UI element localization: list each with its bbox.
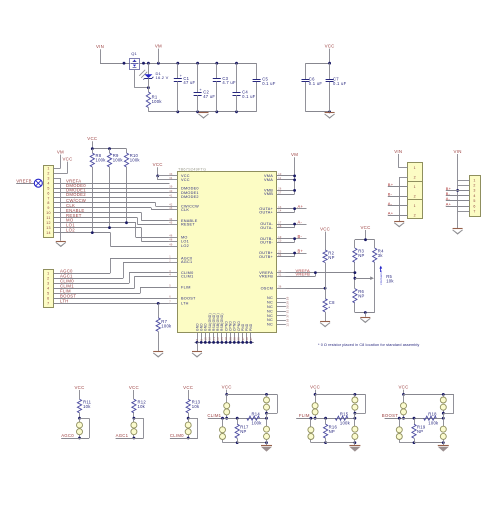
svg-text:3k: 3k — [378, 253, 384, 258]
svg-text:100k: 100k — [113, 157, 124, 162]
svg-text:VCC: VCC — [153, 162, 163, 167]
svg-text:100k: 100k — [252, 421, 263, 426]
svg-text:36: 36 — [278, 286, 282, 289]
svg-text:B+: B+ — [298, 248, 304, 253]
svg-text:13: 13 — [46, 226, 51, 230]
svg-text:2: 2 — [47, 172, 49, 176]
svg-text:NC: NC — [267, 318, 273, 322]
svg-text:A+: A+ — [298, 204, 304, 209]
svg-text:NP: NP — [417, 429, 423, 434]
svg-text:31: 31 — [278, 274, 282, 277]
svg-text:42: 42 — [169, 204, 173, 207]
svg-text:100k: 100k — [130, 157, 141, 162]
svg-text:5: 5 — [47, 186, 49, 190]
svg-text:OUTA-: OUTA- — [260, 226, 273, 230]
svg-text:37: 37 — [286, 314, 290, 318]
svg-text:Q1: Q1 — [131, 51, 137, 56]
svg-text:10k: 10k — [83, 404, 91, 409]
svg-text:1: 1 — [414, 185, 416, 189]
svg-text:39: 39 — [169, 186, 173, 189]
svg-text:47 uF: 47 uF — [183, 80, 195, 85]
svg-text:27: 27 — [278, 191, 282, 194]
svg-text:7: 7 — [473, 210, 475, 214]
svg-text:DMODE1: DMODE1 — [181, 191, 199, 195]
svg-text:NC: NC — [267, 309, 273, 313]
svg-text:12: 12 — [286, 323, 290, 327]
svg-text:R15: R15 — [340, 411, 349, 416]
svg-text:32: 32 — [278, 270, 282, 273]
svg-text:LO1: LO1 — [181, 239, 189, 243]
svg-text:4.7 uF: 4.7 uF — [222, 80, 236, 85]
svg-text:C8: C8 — [329, 300, 335, 305]
svg-text:OUTA+: OUTA+ — [259, 210, 273, 214]
svg-text:2: 2 — [47, 277, 49, 281]
svg-text:B-: B- — [388, 192, 393, 197]
svg-text:B-: B- — [298, 234, 303, 239]
svg-text:6: 6 — [47, 297, 49, 301]
svg-text:34: 34 — [169, 177, 173, 180]
svg-text:2: 2 — [414, 194, 416, 198]
svg-text:NC: NC — [267, 301, 273, 305]
svg-text:A+: A+ — [388, 211, 394, 216]
svg-text:16.2 V: 16.2 V — [156, 75, 169, 80]
svg-text:PND: PND — [249, 323, 253, 331]
svg-text:VIN: VIN — [96, 44, 104, 49]
svg-text:AGC1: AGC1 — [181, 260, 192, 264]
svg-text:7: 7 — [47, 196, 49, 200]
svg-text:OUTB+: OUTB+ — [259, 255, 274, 259]
svg-text:10: 10 — [46, 211, 51, 215]
svg-text:4: 4 — [47, 182, 49, 186]
svg-text:NC: NC — [267, 305, 273, 309]
svg-text:VCC: VCC — [325, 44, 335, 49]
svg-text:VCC: VCC — [181, 178, 190, 182]
svg-text:6: 6 — [47, 191, 49, 195]
svg-text:6: 6 — [473, 204, 475, 208]
svg-text:33: 33 — [169, 173, 173, 176]
svg-text:VCC: VCC — [87, 136, 97, 141]
svg-text:18: 18 — [278, 225, 282, 228]
svg-text:OSCM: OSCM — [261, 287, 273, 291]
svg-text:0.1 uF: 0.1 uF — [242, 94, 256, 99]
svg-text:VCC: VCC — [310, 385, 320, 390]
svg-text:VIN: VIN — [394, 149, 402, 154]
svg-text:1: 1 — [473, 178, 475, 182]
svg-text:CLIM0: CLIM0 — [170, 433, 184, 438]
svg-text:4: 4 — [47, 287, 49, 291]
svg-text:10k: 10k — [386, 279, 394, 284]
svg-text:VMA: VMA — [264, 178, 273, 182]
svg-text:100k: 100k — [161, 323, 172, 328]
svg-text:VM: VM — [291, 152, 298, 157]
svg-text:26: 26 — [278, 188, 282, 191]
svg-text:41: 41 — [169, 194, 173, 197]
svg-text:23: 23 — [278, 250, 282, 253]
svg-text:3: 3 — [47, 282, 49, 286]
svg-text:NP: NP — [358, 253, 364, 258]
svg-text:VCC: VCC — [129, 385, 139, 390]
svg-text:20: 20 — [278, 240, 282, 243]
svg-text:CLIM1: CLIM1 — [181, 274, 193, 278]
svg-text:LTH: LTH — [60, 299, 69, 304]
svg-text:13: 13 — [278, 206, 282, 209]
svg-text:5: 5 — [473, 199, 475, 203]
svg-text:100k: 100k — [96, 157, 107, 162]
svg-text:7: 7 — [47, 302, 49, 306]
svg-text:100k: 100k — [152, 99, 163, 104]
svg-text:VCC: VCC — [62, 157, 72, 162]
svg-text:VM: VM — [57, 150, 64, 155]
svg-text:RESET: RESET — [181, 223, 195, 227]
svg-text:R14: R14 — [252, 411, 261, 416]
svg-text:100k: 100k — [340, 421, 351, 426]
svg-text:3: 3 — [473, 189, 475, 193]
svg-text:NP: NP — [240, 429, 246, 434]
svg-text:47: 47 — [249, 337, 253, 341]
svg-text:1: 1 — [47, 167, 49, 171]
svg-text:BOOST: BOOST — [181, 297, 196, 301]
svg-text:2: 2 — [473, 184, 475, 188]
svg-text:2: 2 — [414, 175, 416, 179]
svg-text:VREFB: VREFB — [259, 274, 273, 278]
svg-text:11: 11 — [278, 177, 281, 180]
svg-text:TB67S249FTG: TB67S249FTG — [178, 167, 206, 171]
svg-text:NC: NC — [267, 323, 273, 327]
svg-text:1: 1 — [414, 204, 416, 208]
svg-text:BOOST: BOOST — [382, 413, 398, 418]
svg-text:0.1 uF: 0.1 uF — [333, 81, 347, 86]
svg-text:46: 46 — [169, 235, 173, 238]
svg-text:DMODE2: DMODE2 — [66, 192, 86, 197]
svg-text:VM: VM — [155, 44, 162, 49]
svg-text:NC: NC — [267, 296, 273, 300]
svg-text:44: 44 — [169, 218, 173, 221]
svg-text:R18: R18 — [428, 411, 437, 416]
svg-text:12: 12 — [46, 221, 51, 225]
svg-text:+: + — [180, 73, 183, 78]
svg-text:19: 19 — [278, 236, 282, 239]
svg-text:11: 11 — [46, 216, 50, 220]
svg-text:* 0 Ω resistor placed in C8 lo: * 0 Ω resistor placed in C8 location for… — [318, 343, 419, 347]
svg-text:29: 29 — [286, 301, 290, 305]
svg-text:28: 28 — [286, 296, 290, 300]
svg-text:0.1 uF: 0.1 uF — [262, 81, 276, 86]
svg-text:NP: NP — [329, 429, 335, 434]
svg-text:A-: A- — [298, 219, 303, 224]
svg-text:40: 40 — [169, 190, 173, 193]
svg-text:38: 38 — [286, 318, 290, 322]
svg-text:2: 2 — [414, 213, 416, 217]
svg-text:43: 43 — [169, 207, 173, 210]
svg-text:VMB: VMB — [264, 192, 273, 196]
svg-text:35: 35 — [286, 310, 290, 314]
svg-text:VCC: VCC — [222, 385, 232, 390]
svg-text:8: 8 — [47, 201, 49, 205]
svg-text:AGC0: AGC0 — [61, 433, 74, 438]
svg-text:14: 14 — [46, 231, 51, 235]
svg-text:FLIM: FLIM — [299, 413, 310, 418]
svg-text:DMODE0: DMODE0 — [181, 186, 199, 190]
svg-text:VREFB: VREFB — [16, 179, 32, 184]
svg-text:AGC1: AGC1 — [116, 433, 129, 438]
svg-text:*: * — [328, 305, 330, 310]
svg-text:48: 48 — [169, 238, 173, 241]
svg-text:LO2: LO2 — [66, 228, 75, 233]
svg-text:5: 5 — [47, 292, 49, 296]
svg-text:14: 14 — [278, 210, 282, 213]
svg-text:45: 45 — [169, 222, 173, 225]
svg-text:CLIM1: CLIM1 — [207, 413, 221, 418]
svg-text:30: 30 — [286, 305, 290, 309]
svg-text:VCC: VCC — [398, 385, 408, 390]
svg-text:3: 3 — [47, 177, 49, 181]
svg-text:LO2: LO2 — [181, 244, 189, 248]
svg-text:clockwise: clockwise — [379, 270, 383, 285]
svg-text:VIN: VIN — [454, 149, 462, 154]
svg-text:+: + — [199, 87, 202, 92]
svg-text:10k: 10k — [192, 404, 200, 409]
svg-text:0.1 uF: 0.1 uF — [309, 81, 323, 86]
svg-text:NC: NC — [267, 314, 273, 318]
svg-text:47 uF: 47 uF — [203, 94, 215, 99]
svg-text:VCC: VCC — [183, 385, 193, 390]
svg-text:FLIM: FLIM — [181, 286, 191, 290]
svg-text:NP: NP — [328, 255, 334, 260]
svg-text:100k: 100k — [428, 421, 439, 426]
svg-text:49: 49 — [169, 243, 173, 246]
svg-text:17: 17 — [278, 221, 282, 224]
svg-text:1: 1 — [414, 166, 416, 170]
svg-text:9: 9 — [47, 206, 49, 210]
svg-text:10k: 10k — [138, 404, 146, 409]
svg-text:NP: NP — [358, 293, 364, 298]
svg-text:DMODE2: DMODE2 — [181, 195, 199, 199]
svg-text:VCC: VCC — [360, 225, 370, 230]
svg-text:OUTB-: OUTB- — [260, 240, 274, 244]
svg-text:4: 4 — [473, 194, 475, 198]
svg-text:1: 1 — [47, 272, 49, 276]
svg-text:VCC: VCC — [320, 227, 330, 232]
svg-text:LTH: LTH — [181, 302, 189, 306]
svg-text:A+: A+ — [446, 201, 452, 206]
svg-text:CLK: CLK — [181, 208, 189, 212]
svg-text:10: 10 — [278, 173, 282, 176]
svg-text:VCC: VCC — [74, 385, 84, 390]
svg-text:24: 24 — [278, 254, 282, 257]
